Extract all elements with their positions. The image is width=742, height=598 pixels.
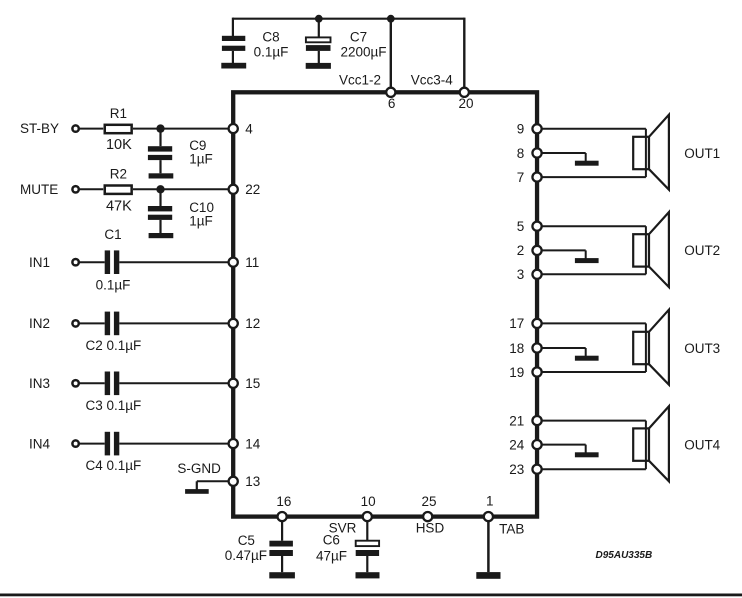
pin 19 (532, 367, 541, 376)
wire TAB to ground (487, 517, 490, 573)
svg-text:16: 16 (276, 494, 291, 509)
node junction rail-C7 (315, 15, 323, 23)
svg-text:IN3: IN3 (29, 376, 50, 391)
svg-text:C5: C5 (238, 533, 255, 548)
svg-text:C3 0.1µF: C3 0.1µF (86, 398, 142, 413)
svg-text:HSD: HSD (416, 521, 445, 536)
svg-text:TAB: TAB (499, 521, 524, 536)
svg-text:1: 1 (486, 494, 494, 509)
wire cap to pin 15 (119, 382, 233, 384)
svg-text:OUT2: OUT2 (684, 243, 720, 258)
ground for pin 2 (575, 258, 599, 263)
node junction rail-pin6 (387, 15, 395, 23)
wire pin 2 to ground (537, 249, 586, 251)
pin 25 (423, 512, 432, 521)
wire C10 lead (159, 189, 161, 206)
wire IN2 terminal to cap (79, 322, 105, 324)
wire cap to pin 11 (119, 261, 233, 263)
svg-text:C2 0.1µF: C2 0.1µF (86, 338, 142, 353)
svg-text:21: 21 (509, 413, 524, 428)
pin 1 (484, 512, 493, 521)
speaker OUT2 (633, 212, 669, 287)
svg-text:18: 18 (509, 341, 524, 356)
node terminal IN4 (72, 440, 78, 446)
capacitor C1 series (105, 250, 120, 274)
svg-text:OUT1: OUT1 (684, 146, 720, 161)
ground for pin 8 (575, 161, 599, 166)
ground for C8 (221, 63, 246, 69)
wire signal ground drop (196, 481, 198, 489)
pin 14 (229, 439, 238, 448)
svg-text:20: 20 (458, 96, 473, 111)
capacitor C10 (148, 206, 172, 233)
pin 11 (229, 258, 238, 267)
wire ground drop OUT2 (585, 250, 587, 258)
ground for TAB (476, 572, 500, 579)
wire pin 24 to ground (537, 444, 586, 446)
wire C7 lead to rail (318, 18, 320, 38)
svg-text:C1: C1 (104, 227, 121, 242)
pin 2 (532, 246, 541, 255)
node terminal IN1 (72, 259, 78, 265)
wire pin 5 to speaker OUT2 (537, 225, 646, 227)
svg-text:0.1µF: 0.1µF (96, 278, 131, 293)
ground for C6 (356, 572, 380, 578)
wire C6 lead (366, 517, 368, 541)
wire cap to pin 14 (119, 443, 233, 445)
svg-text:S-GND: S-GND (177, 461, 221, 476)
capacitor C9 (148, 146, 172, 173)
pin 8 (532, 148, 541, 157)
svg-text:11: 11 (245, 255, 259, 270)
resistor R1 (105, 125, 132, 133)
wire pin 8 to ground (537, 152, 586, 154)
pin 13 (229, 477, 238, 486)
pin 18 (532, 343, 541, 352)
ground for pin 18 (575, 356, 599, 361)
node terminal IN2 (72, 320, 78, 326)
wire rail corner to pin 20 (463, 18, 465, 93)
svg-text:D95AU335B: D95AU335B (596, 550, 653, 561)
wire pin 7 to speaker OUT1 (537, 176, 646, 178)
svg-text:23: 23 (509, 462, 524, 477)
pin 12 (229, 319, 238, 328)
wire pin 3 to speaker OUT2 (537, 273, 646, 275)
wire pin 17 to speaker OUT3 (537, 322, 646, 324)
pin 4 (229, 124, 238, 133)
wire ground drop OUT1 (585, 153, 587, 161)
capacitor C8 (222, 36, 245, 63)
svg-text:15: 15 (245, 376, 260, 391)
wire pin 21 to speaker OUT4 (537, 420, 646, 422)
svg-text:3: 3 (517, 267, 525, 282)
ground for C10 (149, 233, 174, 238)
capacitor C2 series (105, 312, 120, 336)
svg-text:OUT3: OUT3 (684, 341, 720, 356)
wire speaker OUT1 vertical (645, 129, 647, 177)
svg-text:17: 17 (509, 316, 524, 331)
wire MUTE terminal to R2 (79, 188, 103, 190)
svg-text:C7: C7 (350, 30, 367, 45)
capacitor C6 (electrolytic) (356, 541, 379, 573)
op-amp IC U1 body (power amplifier) (233, 92, 537, 516)
svg-text:10: 10 (361, 494, 376, 509)
wire C9 lead (159, 129, 161, 147)
wire R2 to pin 22 (133, 188, 233, 190)
svg-text:Vcc1-2: Vcc1-2 (339, 72, 381, 87)
svg-text:7: 7 (517, 170, 525, 185)
ground S-GND symbol (185, 489, 209, 494)
wire pin 9 to speaker OUT1 (537, 128, 646, 130)
svg-text:22: 22 (245, 182, 260, 197)
svg-text:OUT4: OUT4 (684, 437, 720, 452)
wire C8 lead to rail (232, 18, 234, 37)
svg-text:2200µF: 2200µF (340, 44, 386, 59)
pin 23 (532, 465, 541, 474)
wire IN3 terminal to cap (79, 382, 105, 384)
pin 16 (278, 512, 287, 521)
resistor R2 (105, 186, 132, 194)
pin 24 (532, 440, 541, 449)
ground for C5 (269, 572, 295, 578)
svg-text:IN1: IN1 (29, 255, 50, 270)
svg-text:12: 12 (245, 316, 260, 331)
pin 22 (229, 185, 238, 194)
wire rail to pin 6 (390, 19, 392, 93)
capacitor C7 (electrolytic) (306, 37, 331, 63)
pin 5 (532, 222, 541, 231)
svg-text:5: 5 (517, 219, 525, 234)
wire speaker OUT4 vertical (645, 421, 647, 470)
pin 20 (460, 88, 469, 97)
svg-text:47K: 47K (106, 198, 132, 214)
wire IN4 terminal to cap (79, 443, 105, 445)
pin 3 (532, 270, 541, 279)
wire pin 18 to ground (537, 347, 586, 349)
capacitor C4 series (105, 432, 120, 456)
ground for C7 (306, 63, 331, 69)
wire cap to pin 12 (119, 322, 233, 324)
pin 9 (532, 124, 541, 133)
wire R1 to pin 4 (133, 128, 233, 130)
ground for pin 24 (575, 452, 599, 457)
pin 6 (386, 88, 395, 97)
svg-text:ST-BY: ST-BY (20, 121, 59, 136)
speaker OUT3 (633, 310, 669, 385)
svg-text:13: 13 (245, 474, 260, 489)
svg-text:1µF: 1µF (189, 214, 213, 229)
svg-text:9: 9 (517, 122, 525, 137)
svg-text:R1: R1 (110, 106, 127, 121)
svg-text:C4 0.1µF: C4 0.1µF (86, 458, 142, 473)
svg-text:R2: R2 (110, 167, 127, 182)
pin 7 (532, 173, 541, 182)
ground for C9 (149, 173, 174, 178)
capacitor C3 series (105, 372, 120, 396)
svg-text:25: 25 (421, 494, 436, 509)
node junction R2-C10 (156, 185, 164, 193)
svg-text:47µF: 47µF (316, 549, 347, 564)
svg-text:SVR: SVR (329, 521, 357, 536)
wire ground drop OUT4 (585, 445, 587, 453)
wire IN1 terminal to cap (79, 261, 105, 263)
wire pin 23 to speaker OUT4 (537, 468, 646, 470)
svg-text:MUTE: MUTE (20, 182, 58, 197)
svg-text:IN4: IN4 (29, 436, 51, 451)
svg-text:C8: C8 (262, 30, 279, 45)
wire pin 19 to speaker OUT3 (537, 371, 646, 373)
pin 21 (532, 416, 541, 425)
svg-text:24: 24 (509, 437, 525, 452)
svg-text:4: 4 (245, 121, 253, 136)
svg-text:14: 14 (245, 436, 261, 451)
wire ST-BY terminal to R1 (79, 128, 103, 130)
node terminal ST-BY (72, 125, 78, 131)
node terminal MUTE (72, 186, 78, 192)
svg-text:2: 2 (517, 243, 525, 258)
capacitor C5 (269, 541, 293, 573)
wire C5 lead (281, 517, 283, 541)
wire Vcc top rail (233, 18, 465, 20)
pin 17 (532, 319, 541, 328)
pin 10 (363, 512, 372, 521)
svg-text:0.47µF: 0.47µF (225, 548, 267, 563)
node terminal IN3 (72, 380, 78, 386)
svg-text:IN2: IN2 (29, 316, 50, 331)
svg-text:0.1µF: 0.1µF (254, 44, 289, 59)
svg-text:1µF: 1µF (189, 152, 213, 167)
svg-text:8: 8 (517, 146, 525, 161)
wire pin 13 to signal ground (197, 480, 233, 482)
wire ground drop OUT3 (585, 348, 587, 356)
svg-text:Vcc3-4: Vcc3-4 (411, 72, 454, 87)
wire speaker OUT2 vertical (645, 226, 647, 274)
svg-text:6: 6 (388, 96, 396, 111)
svg-text:10K: 10K (106, 137, 132, 153)
border bottom rule (0, 594, 742, 597)
speaker OUT4 (633, 406, 669, 481)
pin 15 (229, 379, 238, 388)
node junction R1-C9 (156, 124, 164, 132)
speaker OUT1 (633, 115, 669, 190)
wire speaker OUT3 vertical (645, 323, 647, 372)
svg-text:19: 19 (509, 365, 524, 380)
